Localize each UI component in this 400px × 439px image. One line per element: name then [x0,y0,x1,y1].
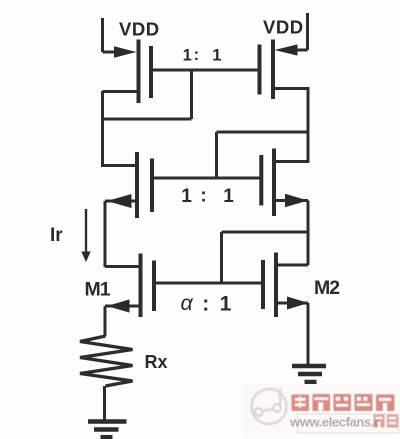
wire lower cross branch horizontal [222,231,309,234]
svg-text:1: 1 [183,46,192,64]
label ratio alpha:1 bottom [181,291,232,316]
top-right PMOS source lead with arrow [275,44,308,55]
transistor middle-left gate bar [150,159,154,213]
transistor top-left channel bar [137,40,141,104]
watermark text elecfans chinese [292,394,395,411]
wire cross branch horizontal [217,131,309,134]
svg-text::: : [202,293,209,316]
wire left stack vertical [104,201,107,267]
wire middle-right drain lead [274,160,308,163]
svg-text:Rx: Rx [145,352,168,372]
svg-text:VDD: VDD [119,19,160,40]
svg-text:Ir: Ir [50,225,63,246]
svg-text:1: 1 [223,186,234,207]
transistor middle-left channel bar [135,152,139,218]
top-left PMOS source lead with arrow [103,46,137,57]
svg-text::: : [200,186,206,207]
wire M2 drain lead [276,264,308,267]
M2 source lead with arrow [276,297,309,310]
transistor M2 channel bar [274,253,278,318]
svg-text::: : [194,46,200,64]
middle-left source lead with arrow [105,194,137,208]
current arrow Ir [81,209,90,262]
svg-text:1: 1 [212,46,221,64]
wire resistor bottom lead [103,386,106,420]
wire bottom gate [155,282,263,285]
wire top gate mirror [150,69,260,72]
wire cross branch vertical [215,132,218,180]
ground left [88,422,127,438]
label ratio 1:1 top [183,46,222,65]
watermark logo circle [252,389,287,425]
wire top-left drain vertical [101,91,104,167]
svg-text:1: 1 [181,186,192,207]
middle-right source lead with arrow [274,194,308,207]
wire right stack vertical [307,201,310,266]
wire diode branch vertical [190,70,193,119]
watermark background [244,384,400,434]
M1 source lead with arrow [105,299,141,312]
svg-text:1: 1 [220,293,232,316]
wire M1 source vertical [104,306,107,336]
transistor middle-right channel bar [272,149,276,217]
watermark url box outline [298,414,399,433]
wire top-right drain vertical [307,87,310,163]
wire top-left drain lead [103,90,139,93]
transistor M2 gate bar [261,260,265,309]
wire VDD left vertical [101,18,104,52]
transistor middle-right gate bar [259,155,263,206]
wire top-right drain lead [273,87,308,90]
svg-text:www.elecfans.c: www.elecfans.c [289,415,381,430]
transistor top-right gate bar [258,45,262,95]
transistor M1 channel bar [139,254,143,318]
wire VDD right vertical [306,13,309,50]
ground right [292,366,326,382]
resistor Rx [80,336,133,386]
label ratio 1:1 middle [181,186,234,208]
svg-text:M2: M2 [314,277,340,299]
wire middle gate [152,177,262,180]
wire M2 source vertical [307,303,310,365]
transistor top-right channel bar [271,40,275,100]
wire middle-left drain lead [103,164,138,167]
svg-text:M1: M1 [85,279,111,301]
svg-text:VDD: VDD [263,17,304,38]
wire lower cross branch vertical [220,232,223,285]
wire M1 drain lead [105,265,141,268]
transistor M1 gate bar [152,261,156,312]
wire diode branch horizontal [101,118,192,121]
watermark tail chars [374,415,399,428]
svg-text:α: α [181,291,194,315]
transistor top-left gate bar [149,46,153,98]
